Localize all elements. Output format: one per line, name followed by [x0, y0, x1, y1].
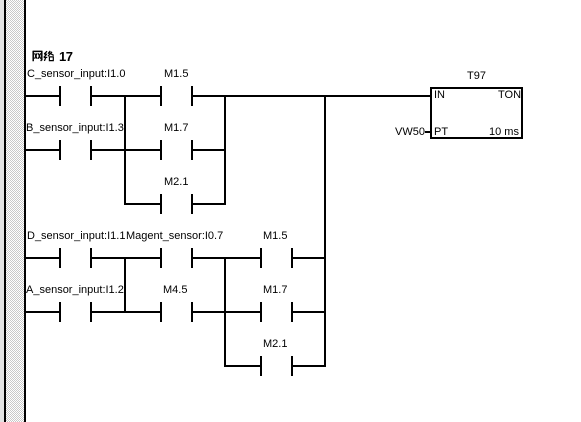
margin column dithered fill	[6, 0, 24, 422]
wire rungB: node L2 to contact M4.5	[126, 311, 160, 313]
left gutter strip	[0, 0, 4, 422]
label A_sensor_input:I1.2	[26, 285, 124, 296]
timer T97 label	[467, 71, 486, 82]
label M4.5	[163, 285, 187, 296]
operand VW50	[395, 127, 425, 138]
contact M2.1 (group 2, branch 3)	[260, 356, 262, 376]
contact Magent_sensor:I0.7	[160, 248, 162, 268]
wire rungA: node L2 to contact Magent	[126, 257, 160, 259]
wire rung1: rail to contact C	[26, 95, 59, 97]
wire rung1: node L1 to contact M1.5	[126, 95, 160, 97]
wire rungB: rail to contact A	[26, 311, 59, 313]
wire stub VW50 to PT pin	[425, 131, 430, 133]
label M1.5 (branch 1)	[164, 69, 188, 80]
timer type label TON	[498, 90, 521, 101]
contact M1.7 (group 2, branch 2)	[260, 302, 262, 322]
contact A_sensor_input:I1.2	[59, 302, 61, 322]
label M2.1 (group 2, branch 3)	[263, 339, 287, 350]
contact M2.1 (branch 3)	[160, 194, 162, 214]
contact M1.7 (branch 2)	[160, 140, 162, 160]
wire rungB: node M2 to contact M1.7	[226, 311, 260, 313]
label M1.7 (branch 2)	[164, 123, 188, 134]
wire rung1: contact M1.5 to node R1	[193, 95, 224, 97]
wire branchC: node M2 to contact M2.1	[226, 365, 260, 367]
label Magent_sensor:I0.7	[126, 231, 223, 242]
wire rung1: contact C to node L1	[92, 95, 124, 97]
wire rungA: contact D to node L2	[92, 257, 124, 259]
node R1 vertical (right OR-junction, group 1)	[224, 95, 226, 205]
wire rung2: contact B to node L1	[92, 149, 124, 151]
wire rung1: node R1 to timer T97 IN	[226, 95, 430, 97]
wire rungB: contact M1.7 to node T	[293, 311, 324, 313]
wire rungB: contact M4.5 to node M2	[193, 311, 224, 313]
contact M1.5 (branch 1)	[160, 86, 162, 106]
label D_sensor_input:I1.1	[27, 231, 125, 242]
label M1.7 (group 2, branch 2)	[263, 285, 287, 296]
timer pin label PT	[434, 127, 448, 138]
contact M4.5	[160, 302, 162, 322]
timer T97 box (TON)	[430, 87, 523, 139]
label C_sensor_input:I1.0	[27, 69, 125, 80]
label B_sensor_input:I1.3	[26, 123, 124, 134]
node M2 vertical (middle OR-junction, group 2)	[224, 257, 226, 367]
wire rung2: node L1 to contact M1.7	[126, 149, 160, 151]
network title 网络 17	[32, 50, 72, 62]
left power rail	[24, 0, 26, 422]
wire branchC: contact M2.1 to node T	[293, 365, 324, 367]
node T vertical (long drop to group 2 output)	[324, 95, 326, 367]
node L1 vertical (left OR-junction, group 1)	[124, 95, 126, 205]
contact D_sensor_input:I1.1	[59, 248, 61, 268]
timer resolution label 10 ms	[489, 127, 519, 138]
wire rung2: contact M1.7 to node R1	[193, 149, 224, 151]
title number 17	[59, 51, 72, 63]
wire rungA: contact Magent to node M2	[193, 257, 224, 259]
label M2.1 (branch 3)	[164, 177, 188, 188]
wire rungA: node M2 to contact M1.5	[226, 257, 260, 259]
contact C_sensor_input:I1.0	[59, 86, 61, 106]
timer pin label IN	[434, 90, 445, 101]
wire rungB: contact A to node L2	[92, 311, 124, 313]
wire rung2: rail to contact B	[26, 149, 59, 151]
wire rungA: contact M1.5 to node T	[293, 257, 324, 259]
label M1.5 (group 2, branch 1)	[263, 231, 287, 242]
contact M1.5 (group 2, branch 1)	[260, 248, 262, 268]
margin column left border	[4, 0, 6, 422]
wire rungA: rail to contact D	[26, 257, 59, 259]
wire branch3: node L1 to contact M2.1	[126, 203, 160, 205]
contact B_sensor_input:I1.3	[59, 140, 61, 160]
wire branch3: contact M2.1 to node R1	[193, 203, 224, 205]
node L2 vertical (left OR-junction, group 2)	[124, 257, 126, 313]
